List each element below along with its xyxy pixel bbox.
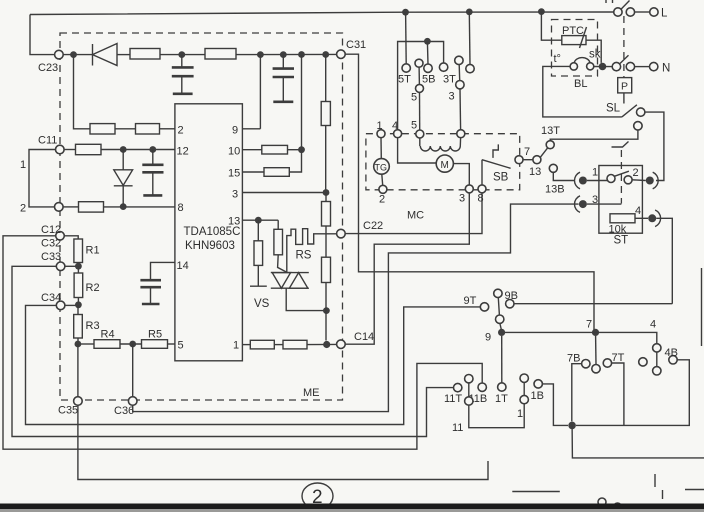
- svg-text:SL: SL: [606, 103, 621, 115]
- svg-text:8: 8: [178, 202, 184, 214]
- wire C36 to ST terminal 3: [133, 204, 579, 412]
- MC terminal 5: [416, 130, 424, 138]
- svg-text:TG: TG: [375, 163, 388, 173]
- wire terminal4 to M: [398, 138, 437, 163]
- svg-text:VS: VS: [254, 298, 270, 310]
- wire M to terminal3: [453, 164, 469, 185]
- svg-text:L: L: [661, 8, 668, 20]
- wire C34 row: [65, 304, 79, 306]
- wire pin1 row: [242, 344, 250, 346]
- svg-text:1: 1: [377, 120, 383, 132]
- figure number 2: [302, 483, 333, 509]
- wire C33 to 11T: [12, 266, 453, 436]
- wire PTC to BL node: [586, 40, 601, 63]
- contact 3 rail side: [466, 64, 474, 72]
- svg-text:1: 1: [517, 408, 523, 420]
- svg-text:C23: C23: [38, 62, 58, 74]
- junction pin9 riser: [257, 51, 264, 58]
- thermal protector BL: [570, 63, 577, 70]
- svg-text:C34: C34: [41, 292, 61, 304]
- contact 9B: [506, 300, 514, 308]
- diode D1 (cathode left): [92, 44, 94, 66]
- svg-text:9T: 9T: [464, 295, 477, 307]
- door switch sk: [612, 62, 620, 70]
- switch 13 pole: [533, 156, 541, 164]
- contact 3T: [439, 63, 447, 71]
- motor M: [436, 155, 453, 172]
- contact 4B: [669, 356, 677, 364]
- terminal C35: [77, 344, 79, 397]
- wire 1B to common node: [542, 384, 568, 426]
- svg-text:C22: C22: [363, 220, 383, 232]
- wire 13T to SL lower contact: [550, 130, 638, 141]
- contact 5B: [424, 64, 432, 72]
- ST contact pair: [607, 175, 615, 183]
- contact 5T: [402, 64, 410, 72]
- capacitor C2 top: [282, 55, 284, 68]
- svg-text:8: 8: [478, 193, 484, 205]
- svg-text:KHN9603: KHN9603: [185, 240, 235, 252]
- timer block ST box: [599, 166, 643, 234]
- wire C31 to node 7: [345, 54, 594, 332]
- PTC heater dashed box: [552, 20, 598, 77]
- svg-text:TDA1085C: TDA1085C: [184, 226, 241, 238]
- wire 13B to ST1: [553, 172, 574, 180]
- ST terminal 3: [579, 200, 587, 208]
- svg-text:C31: C31: [346, 39, 366, 51]
- svg-text:ME: ME: [303, 387, 320, 399]
- thermistor PTC: [562, 36, 586, 45]
- wire ST4 to node 7: [656, 218, 672, 303]
- wire node9 to switch4: [502, 332, 657, 344]
- wire pin5 row: [78, 343, 94, 345]
- resistor gate chain: [277, 220, 279, 229]
- ST terminal 1: [579, 177, 587, 185]
- switch 1: [498, 383, 506, 391]
- wire node9 to 1T: [501, 336, 503, 383]
- svg-text:2: 2: [20, 203, 26, 215]
- wire C12 to 11B: [3, 236, 482, 449]
- wire pin2 row: [74, 55, 91, 129]
- switch 4 pole: [653, 344, 661, 352]
- wire SL to ST2: [645, 112, 664, 180]
- node 7 junction: [592, 329, 599, 336]
- terminal C36: [132, 344, 134, 397]
- field winding: [419, 138, 421, 146]
- svg-text:11: 11: [452, 422, 463, 434]
- switch 3 pole: [455, 56, 463, 64]
- svg-text:RS: RS: [296, 250, 312, 262]
- svg-text:4: 4: [650, 319, 656, 331]
- svg-text:7: 7: [524, 146, 530, 158]
- ST terminal 4: [648, 214, 656, 222]
- svg-text:5B: 5B: [422, 74, 435, 86]
- MC module dashed box: [366, 134, 520, 190]
- svg-text:1: 1: [233, 340, 239, 352]
- SB contact: [515, 156, 523, 164]
- svg-text:C33: C33: [41, 251, 61, 263]
- svg-text:PTC: PTC: [562, 25, 584, 37]
- svg-text:sk: sk: [589, 49, 601, 61]
- svg-text:C35: C35: [58, 405, 78, 417]
- IC U1 TDA1085C box: [175, 104, 243, 361]
- resistor chain right column: [325, 193, 327, 202]
- wire 11 pole to 1 pole: [469, 404, 524, 428]
- wire C35 long bottom: [78, 405, 488, 479]
- svg-text:R4: R4: [101, 329, 115, 341]
- svg-text:13B: 13B: [545, 184, 565, 196]
- bottom scan band: [0, 504, 704, 510]
- svg-text:7B: 7B: [567, 353, 580, 365]
- svg-text:3: 3: [459, 193, 465, 205]
- terminal C31: [337, 50, 346, 59]
- switch 13 blade: [540, 148, 547, 157]
- ST wiper mark: [612, 142, 629, 148]
- terminal L: [650, 8, 658, 16]
- tacho loop terminals 1 / 2: [29, 150, 56, 207]
- svg-text:12: 12: [177, 146, 189, 158]
- svg-text:9: 9: [485, 332, 491, 344]
- terminal C11: [56, 145, 65, 154]
- switch 5 pole: [415, 59, 423, 67]
- svg-text:BL: BL: [574, 78, 587, 90]
- resistor on pin13 to bar end: [257, 220, 259, 241]
- svg-text:15: 15: [228, 168, 240, 180]
- svg-text:4B: 4B: [665, 347, 678, 359]
- svg-text:R1: R1: [86, 245, 100, 257]
- terminal C14: [337, 340, 346, 349]
- wire terminal8 to SB: [481, 160, 483, 185]
- MC terminal 2: [379, 185, 387, 193]
- mains switch PT: [614, 8, 622, 16]
- contact 13B: [549, 164, 557, 172]
- wire to C31: [236, 53, 337, 55]
- svg-text:N: N: [662, 63, 670, 75]
- contact 4 throw: [639, 358, 647, 366]
- svg-text:1: 1: [20, 159, 26, 171]
- svg-text:R2: R2: [86, 282, 100, 294]
- program switch bar 5/4/3: [398, 42, 444, 130]
- junction on C23 row: [70, 51, 77, 58]
- resistor R4: [94, 340, 120, 349]
- wire pin3: [242, 192, 326, 194]
- MC terminal 4: [394, 130, 402, 138]
- svg-text:R5: R5: [148, 329, 162, 341]
- contact 7T: [603, 359, 611, 367]
- svg-text:C36: C36: [114, 405, 134, 417]
- svg-text:2: 2: [633, 167, 639, 179]
- contact 9T: [480, 303, 488, 311]
- mechanical link dashed: [623, 16, 625, 78]
- resistor R2: [77, 266, 79, 273]
- svg-text:5: 5: [178, 340, 184, 352]
- wire common node exit right: [572, 425, 704, 458]
- svg-text:5T: 5T: [398, 74, 411, 86]
- wire pin10 riser: [301, 55, 303, 150]
- wire BL left to SL pivot: [543, 66, 622, 117]
- potentiometer 10k: [610, 214, 635, 223]
- terminal C33: [56, 262, 65, 271]
- switch 11: [454, 383, 462, 391]
- switch 7 pole: [595, 336, 597, 365]
- svg-text:3: 3: [232, 189, 238, 201]
- wire BL to sk: [594, 66, 612, 68]
- svg-text:13T: 13T: [541, 125, 560, 137]
- wire pin14: [151, 262, 175, 279]
- MC terminal 1: [377, 130, 385, 138]
- svg-text:13: 13: [228, 216, 240, 228]
- svg-text:C14: C14: [354, 331, 374, 343]
- svg-text:7: 7: [586, 319, 592, 331]
- capacitor on pin12 node: [152, 150, 154, 165]
- svg-text:P: P: [621, 81, 628, 93]
- svg-text:MC: MC: [407, 210, 424, 222]
- svg-text:7T: 7T: [612, 352, 625, 364]
- svg-text:1B: 1B: [531, 390, 544, 402]
- wire C22 to MC terminal 8: [345, 193, 482, 234]
- switch 9 pole: [494, 289, 502, 297]
- wire diode to R: [117, 54, 130, 56]
- resistor top row 1: [130, 49, 160, 60]
- svg-text:SB: SB: [493, 172, 509, 184]
- terminal N: [650, 62, 658, 70]
- triac lower lead: [286, 288, 326, 310]
- wire pin9 riser: [259, 55, 261, 129]
- MC terminal (field): [457, 130, 465, 138]
- zener diode D2: [122, 150, 124, 170]
- svg-text:M: M: [441, 160, 449, 171]
- common node junction: [568, 422, 576, 430]
- tacho TG: [374, 159, 390, 175]
- resistor top row 2: [205, 49, 236, 60]
- svg-text:13: 13: [529, 166, 541, 178]
- wire 7 link: [523, 159, 533, 161]
- svg-text:1: 1: [592, 167, 598, 179]
- svg-text:9: 9: [232, 125, 238, 137]
- svg-text:2: 2: [178, 125, 184, 137]
- pressure switch P box: [618, 78, 632, 93]
- triac VS: [271, 272, 309, 274]
- svg-text:14: 14: [177, 260, 189, 272]
- wire C14 to MC terminal 3: [345, 193, 469, 344]
- wire pin15 + resistor: [242, 171, 264, 173]
- fragment ticks bottom: [512, 491, 560, 493]
- pushbutton SB: [482, 160, 511, 169]
- wire C34 to 9T: [26, 305, 481, 424]
- MC terminal 3: [465, 185, 473, 193]
- svg-text:5: 5: [411, 92, 417, 104]
- terminal C22: [337, 229, 346, 238]
- contact 7B: [582, 360, 590, 368]
- wire rail to PTC: [541, 12, 561, 41]
- wire 9B to ST4 riser: [514, 303, 672, 305]
- svg-text:3: 3: [449, 91, 455, 103]
- wire C33 row: [65, 265, 79, 267]
- svg-text:C32: C32: [41, 238, 61, 250]
- wire C12 to R1: [64, 236, 78, 239]
- wire C23 to diode: [63, 54, 92, 56]
- rail junction A: [402, 9, 409, 16]
- ME module dashed box: [60, 33, 343, 400]
- terminal C23: [55, 50, 64, 59]
- svg-text:t°: t°: [554, 53, 561, 65]
- svg-text:3T: 3T: [443, 74, 456, 86]
- svg-text:C11: C11: [38, 135, 57, 147]
- MC terminal 8: [478, 185, 486, 193]
- junction: [178, 51, 185, 58]
- capacitor on pin14: [140, 279, 161, 282]
- interference suppressor RS comb: [287, 229, 337, 273]
- svg-text:10k: 10k: [609, 224, 627, 236]
- svg-text:R3: R3: [86, 320, 100, 332]
- svg-text:2: 2: [379, 194, 385, 206]
- wire pin13: [242, 219, 278, 221]
- terminal C12: [56, 232, 65, 241]
- wire pin8 row: [63, 206, 78, 208]
- svg-text:9B: 9B: [505, 290, 518, 302]
- resistor R5: [142, 340, 168, 349]
- junction cap2: [280, 51, 287, 58]
- wire pin9: [242, 128, 260, 130]
- junction pin10 riser: [298, 51, 305, 58]
- wire pin12 row: [64, 149, 75, 151]
- svg-text:1T: 1T: [495, 393, 508, 405]
- resistor vertical top-right chain: [325, 55, 327, 102]
- svg-text:5: 5: [411, 120, 417, 132]
- resistor R3: [77, 305, 79, 315]
- capacitor C top-left: [181, 55, 183, 67]
- svg-text:10: 10: [228, 146, 240, 158]
- junction resistor chain: [322, 51, 329, 58]
- svg-text:ST: ST: [614, 235, 629, 247]
- wire pin10 + resistor: [242, 149, 261, 151]
- terminal C34: [56, 301, 65, 310]
- rail junction B: [466, 9, 473, 16]
- svg-text:4: 4: [635, 205, 641, 217]
- ST terminal 2: [646, 177, 654, 185]
- contact 13T: [546, 141, 554, 149]
- svg-text:C12: C12: [41, 224, 61, 236]
- svg-text:11T: 11T: [444, 393, 462, 405]
- resistor R1: [74, 239, 83, 263]
- rail junction C: [538, 8, 545, 15]
- wire top rail from upper-left corner to PT switch: [30, 15, 55, 55]
- wire: [160, 54, 205, 56]
